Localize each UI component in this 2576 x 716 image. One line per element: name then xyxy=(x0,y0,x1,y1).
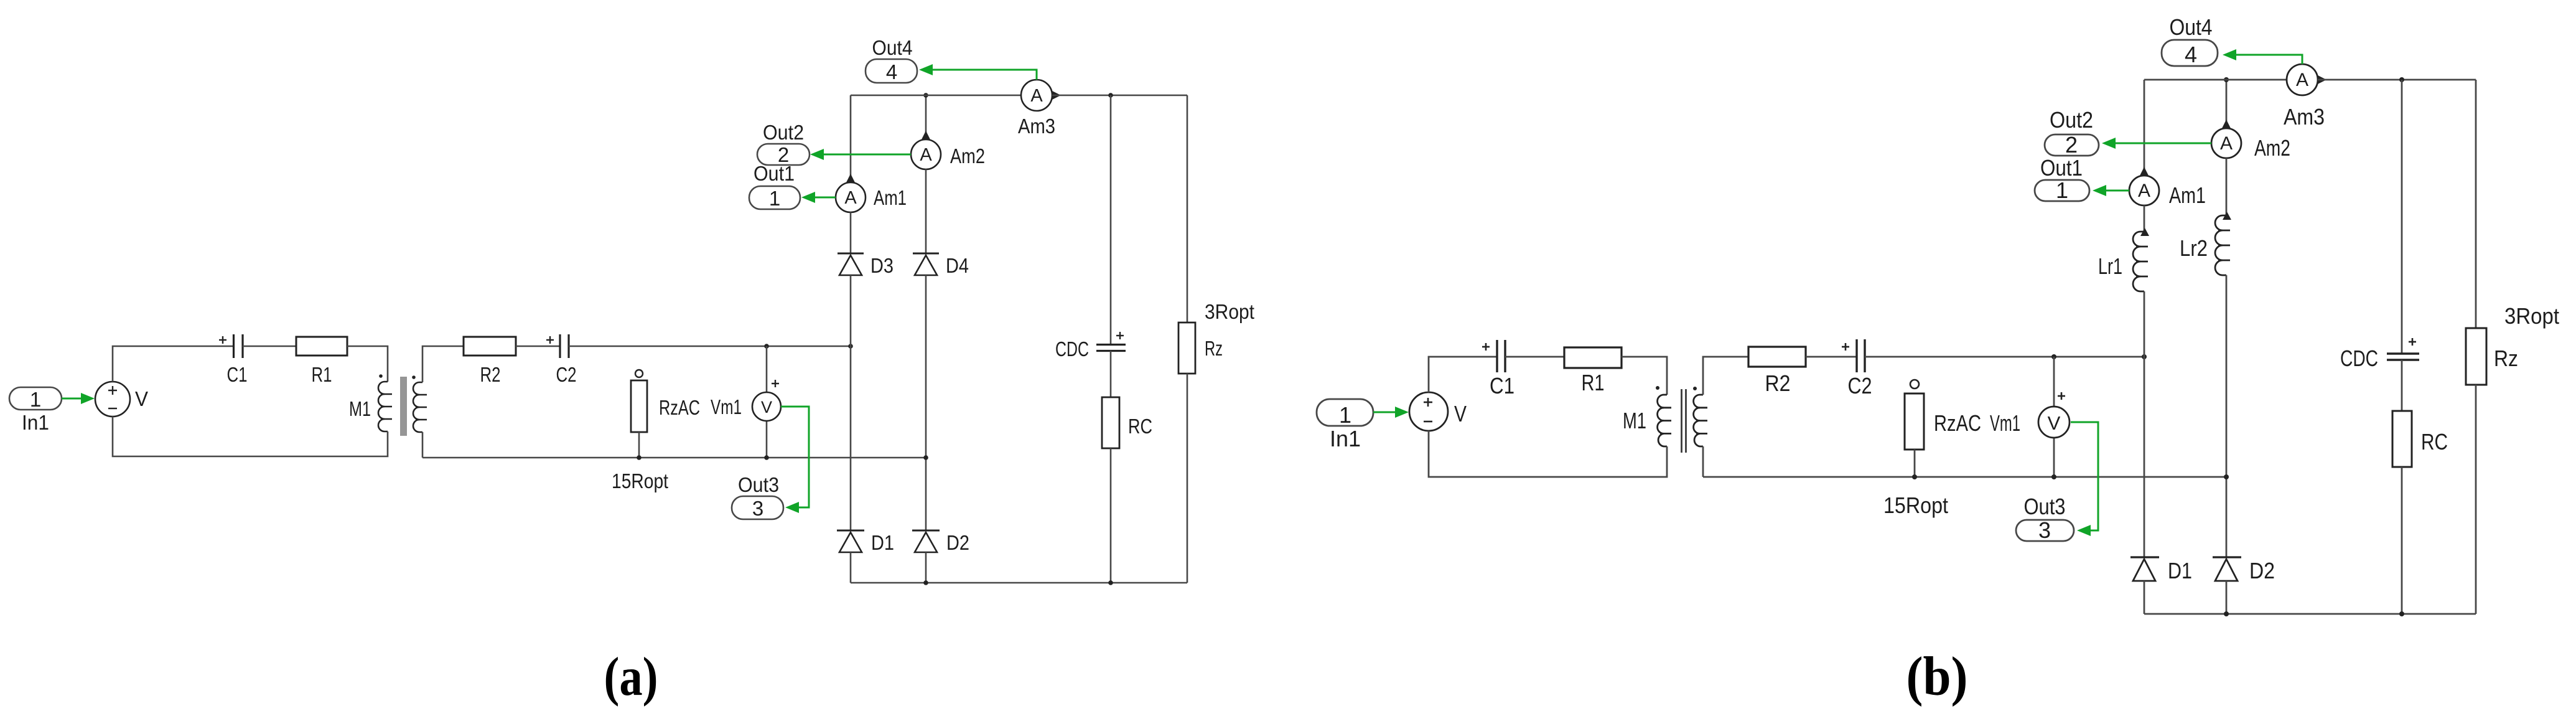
wire R2 to C2 (b) xyxy=(1806,356,1857,358)
svg-text:Am1: Am1 xyxy=(2169,182,2206,208)
wire Am1 to D3 (a) xyxy=(850,212,852,253)
node top rail CDC tap (a) xyxy=(1108,93,1113,98)
svg-text:Out4: Out4 xyxy=(2170,14,2213,40)
svg-text:V: V xyxy=(2048,412,2061,434)
svg-text:Am2: Am2 xyxy=(2254,135,2290,161)
voltmeter Vm1 (b) xyxy=(1990,357,2070,477)
port In1 (a) xyxy=(9,387,62,434)
transformer M1 primary winding (a) xyxy=(378,382,392,431)
diode D1 (b) xyxy=(2130,557,2192,583)
svg-text:D1: D1 xyxy=(2168,558,2192,583)
capacitor C1 (b) xyxy=(1482,340,1514,398)
resistor R1 (a) xyxy=(296,337,347,386)
wire V top to C1 (a) xyxy=(113,346,233,382)
svg-text:Lr1: Lr1 xyxy=(2098,253,2122,279)
wire bridge top rail right of Am3 (b) xyxy=(2318,79,2476,81)
wire bridge left leg upper (b) xyxy=(2144,80,2145,176)
wire C2 to bridge left leg (a) xyxy=(569,346,851,347)
wire D2 to bottom rail (a) xyxy=(925,552,927,583)
svg-text:A: A xyxy=(920,145,932,165)
wire D3 to secondary-top node and D1 (a) xyxy=(850,275,852,530)
inductor Lr2 top arrow (b) xyxy=(2223,212,2231,220)
diode D4 (a) xyxy=(913,253,969,277)
voltage source V (b) xyxy=(1409,392,1467,431)
svg-text:3Ropt: 3Ropt xyxy=(1205,300,1254,323)
svg-text:C1: C1 xyxy=(227,363,248,386)
svg-text:D1: D1 xyxy=(871,531,894,554)
wire Am2 to D4 (a) xyxy=(925,169,927,253)
svg-text:CDC: CDC xyxy=(2340,346,2378,371)
svg-text:1: 1 xyxy=(2056,177,2068,203)
port Out3 (a) xyxy=(732,473,783,520)
svg-text:Am3: Am3 xyxy=(1018,115,1055,138)
wire CDC branch upper (a) xyxy=(1110,95,1112,344)
node bottom rail right leg (a) xyxy=(923,580,928,585)
wire R1 to M1 primary (b) xyxy=(1622,357,1667,395)
wire R1 to M1 primary (a) xyxy=(347,346,388,382)
svg-text:In1: In1 xyxy=(22,411,49,434)
port Out2 (b) xyxy=(2045,107,2099,158)
wire bridge right leg upper (a) xyxy=(925,95,927,139)
svg-text:RC: RC xyxy=(2421,429,2448,455)
node Vm1 bottom (b) xyxy=(2051,474,2056,479)
svg-text:Am3: Am3 xyxy=(2284,104,2325,130)
capacitor C2 (b) xyxy=(1842,339,1872,398)
svg-text:A: A xyxy=(1030,86,1043,106)
signal wire Am3 to Out4 (a) xyxy=(919,64,1037,80)
svg-text:15Ropt: 15Ropt xyxy=(612,469,668,492)
svg-text:M1: M1 xyxy=(349,397,371,420)
wire Am1 to Lr1 (b) xyxy=(2144,205,2145,232)
node top rail CDC tap (b) xyxy=(2399,77,2404,82)
signal wire Am1 to Out1 (b) xyxy=(2093,185,2129,196)
node secondary top meets left leg (b) xyxy=(2142,354,2147,359)
svg-text:V: V xyxy=(135,387,148,410)
svg-text:In1: In1 xyxy=(1330,426,1361,451)
inductor Lr1 (b) xyxy=(2098,232,2148,291)
diode D2 (b) xyxy=(2213,557,2275,583)
ammeter Am2 direction arrow (a) xyxy=(922,131,930,139)
transformer M1 primary dot (b) xyxy=(1656,386,1659,390)
wire Rz to bottom rail (b) xyxy=(2475,385,2477,614)
wire Lr2 to secondary-bottom node and D2 (b) xyxy=(2226,275,2228,557)
ammeter Am1 direction arrow (b) xyxy=(2140,167,2149,176)
wire C1 to R1 (a) xyxy=(243,346,296,347)
diode D2 (a) xyxy=(912,530,969,554)
wire Rz to bottom rail (a) xyxy=(1187,374,1188,583)
signal wire Am2 to Out2 (a) xyxy=(810,149,911,160)
wire D2 to bottom rail (b) xyxy=(2226,581,2228,614)
svg-text:D2: D2 xyxy=(946,531,969,554)
svg-text:Out2: Out2 xyxy=(2050,107,2093,133)
resistor R2 (a) xyxy=(464,337,516,386)
svg-text:15Ropt: 15Ropt xyxy=(1883,492,1948,518)
ammeter Am1 (b) xyxy=(2129,176,2206,208)
ammeter Am2 direction arrow (b) xyxy=(2222,120,2231,128)
svg-text:Out2: Out2 xyxy=(763,121,804,144)
wire bridge top rail left of Am3 (b) xyxy=(2144,79,2287,81)
ammeter Am1 (a) xyxy=(836,182,907,212)
resistor RC (b) xyxy=(2392,411,2448,467)
svg-text:1: 1 xyxy=(1339,402,1351,428)
port Out4 (a) xyxy=(866,36,917,83)
transformer M1 secondary winding (b) xyxy=(1694,395,1707,446)
svg-text:A: A xyxy=(2138,181,2150,201)
wire Am2 to Lr2 (b) xyxy=(2226,158,2228,215)
wire R2 to C2 (a) xyxy=(516,346,560,347)
signal wire In1 to V (b) xyxy=(1373,407,1409,418)
svg-text:Out3: Out3 xyxy=(2024,494,2066,519)
node bottom rail RC tap (b) xyxy=(2399,611,2404,616)
node secondary top meets left leg (a) xyxy=(848,344,853,349)
wire CDC to RC (b) xyxy=(2401,360,2403,411)
ammeter Am3 (a) xyxy=(1018,80,1055,138)
svg-text:Lr2: Lr2 xyxy=(2180,235,2208,261)
svg-text:R2: R2 xyxy=(1765,370,1791,396)
node Vm1 bottom (a) xyxy=(764,455,769,460)
wire D4 to secondary-bottom node and D2 (a) xyxy=(925,275,927,530)
wire RC to bottom rail (a) xyxy=(1110,448,1112,583)
transformer M1 primary winding (b) xyxy=(1658,395,1671,446)
svg-text:A: A xyxy=(2220,133,2233,154)
svg-text:RzAC: RzAC xyxy=(1934,410,1981,436)
wire Lr1 to secondary-top node and D1 (b) xyxy=(2144,291,2145,557)
svg-text:D4: D4 xyxy=(946,254,969,277)
svg-text:A: A xyxy=(2296,70,2308,90)
wire C2 to bridge left leg (b) xyxy=(1865,356,2144,358)
resistor Rz (a) xyxy=(1178,300,1254,374)
voltage source V (a) xyxy=(95,382,148,417)
inductor Lr2 (b) xyxy=(2180,215,2230,275)
svg-text:V: V xyxy=(1454,401,1467,426)
wire M1 secondary top to R2 (a) xyxy=(422,346,464,382)
capacitor C2 (a) xyxy=(546,334,577,386)
svg-text:Am1: Am1 xyxy=(874,186,907,209)
svg-text:C2: C2 xyxy=(556,363,577,386)
ammeter Am3 direction arrow (a) xyxy=(1052,91,1061,100)
wire M1 secondary bottom stub (a) xyxy=(422,432,424,458)
diode D1 (a) xyxy=(837,530,894,554)
svg-text:C1: C1 xyxy=(1490,373,1514,398)
wire bridge bottom rail (b) xyxy=(2144,613,2476,615)
svg-text:R1: R1 xyxy=(312,363,332,386)
svg-text:M1: M1 xyxy=(1623,408,1646,433)
node secondary top / Vm1 tap (a) xyxy=(764,344,769,349)
wire secondary bottom (a) xyxy=(422,457,926,459)
svg-text:RC: RC xyxy=(1128,415,1152,438)
ammeter Am2 (a) xyxy=(911,139,985,169)
svg-text:R2: R2 xyxy=(480,363,501,386)
wire bridge bottom rail (a) xyxy=(851,582,1187,584)
port Out4 (b) xyxy=(2162,14,2218,67)
wire CDC to RC (a) xyxy=(1110,351,1112,398)
transformer M1 secondary winding (a) xyxy=(413,382,427,432)
wire Rz branch upper (a) xyxy=(1187,95,1188,323)
port In1 (b) xyxy=(1317,399,1373,451)
ammeter Am2 (b) xyxy=(2211,128,2290,161)
node right leg top (a) xyxy=(923,93,928,98)
port Out2 (a) xyxy=(757,121,810,166)
wire CDC branch upper (b) xyxy=(2401,80,2403,353)
resistor RzAC (b) xyxy=(1883,380,1981,518)
svg-text:3Ropt: 3Ropt xyxy=(2504,303,2559,329)
wire bridge right leg upper (b) xyxy=(2226,80,2228,128)
svg-text:1: 1 xyxy=(769,187,780,210)
node bottom rail RC tap (a) xyxy=(1108,580,1113,585)
svg-text:(b): (b) xyxy=(1906,646,1968,707)
port Out1 (b) xyxy=(2035,155,2089,203)
svg-text:3: 3 xyxy=(752,497,763,520)
transformer M1 primary dot (a) xyxy=(379,374,383,378)
wire RC to bottom rail (b) xyxy=(2401,467,2403,614)
port Out1 (a) xyxy=(749,162,800,210)
wire D1 to bottom rail (a) xyxy=(850,552,852,583)
node secondary top Vm1 tap (b) xyxy=(2051,354,2056,359)
port Out3 (b) xyxy=(2016,494,2074,543)
wire M1 secondary top to R2 (b) xyxy=(1703,357,1748,395)
wire C1 to R1 (b) xyxy=(1505,356,1564,358)
transformer M1 core (a) xyxy=(400,377,407,436)
node secondary bottom meets right leg (b) xyxy=(2224,474,2229,479)
signal wire Vm1 to Out3 (b) xyxy=(2071,422,2098,536)
capacitor CDC (b) xyxy=(2340,338,2419,371)
transformer M1 secondary dot (a) xyxy=(412,375,416,379)
inductor Lr1 top arrow (b) xyxy=(2140,228,2149,236)
resistor Rz (b) xyxy=(2466,303,2559,385)
node RzAC bottom (b) xyxy=(1912,474,1917,479)
svg-text:Vm1: Vm1 xyxy=(711,395,742,418)
svg-text:2: 2 xyxy=(778,143,789,166)
ammeter Am1 direction arrow (a) xyxy=(846,174,855,182)
node bottom rail right leg (b) xyxy=(2224,611,2229,616)
svg-text:2: 2 xyxy=(2065,132,2078,158)
svg-text:3: 3 xyxy=(2038,517,2051,543)
capacitor CDC (a) xyxy=(1055,332,1126,360)
svg-text:Am2: Am2 xyxy=(950,144,985,167)
svg-text:V: V xyxy=(761,398,772,417)
svg-text:A: A xyxy=(844,188,857,208)
svg-text:(a): (a) xyxy=(604,647,658,707)
wire M1 primary bottom (b) xyxy=(1429,431,1667,477)
wire bridge top rail right of Am3 (a) xyxy=(1052,95,1187,97)
wire bridge left leg upper (a) xyxy=(850,95,852,182)
transformer M1 core (b) xyxy=(1682,389,1686,453)
diode D3 (a) xyxy=(838,253,894,277)
svg-text:Rz: Rz xyxy=(1205,337,1223,360)
signal wire Am2 to Out2 (b) xyxy=(2102,138,2211,149)
resistor R1 (b) xyxy=(1564,347,1622,395)
ammeter Am3 (b) xyxy=(2284,64,2325,130)
node right leg top (b) xyxy=(2224,77,2229,82)
ammeter Am3 direction arrow (b) xyxy=(2318,75,2326,84)
resistor RC (a) xyxy=(1102,397,1152,448)
signal wire Vm1 to Out3 (a) xyxy=(781,407,809,513)
wire D1 to bottom rail (b) xyxy=(2144,581,2145,614)
svg-text:R1: R1 xyxy=(1582,370,1605,395)
svg-text:RzAC: RzAC xyxy=(659,396,700,419)
signal wire In1 to V (a) xyxy=(62,393,95,404)
resistor RzAC (a) xyxy=(612,370,700,492)
wire bridge top rail left of Am3 (a) xyxy=(851,95,1021,97)
svg-text:CDC: CDC xyxy=(1055,337,1089,360)
resistor R2 (b) xyxy=(1748,347,1806,396)
svg-text:Rz: Rz xyxy=(2494,346,2518,371)
svg-text:Out1: Out1 xyxy=(2040,155,2083,181)
svg-text:D2: D2 xyxy=(2249,558,2275,583)
node RzAC bottom (a) xyxy=(637,455,642,460)
node secondary bottom meets right leg (a) xyxy=(923,455,928,460)
svg-text:1: 1 xyxy=(30,388,41,411)
svg-text:Out4: Out4 xyxy=(872,36,913,59)
svg-text:Vm1: Vm1 xyxy=(1990,410,2020,436)
wire Rz branch upper (b) xyxy=(2475,80,2477,328)
svg-text:D3: D3 xyxy=(870,254,894,277)
voltmeter Vm1 (a) xyxy=(711,346,781,458)
wire secondary bottom (b) xyxy=(1703,476,2226,478)
wire M1 primary bottom (a) xyxy=(113,417,388,456)
svg-text:C2: C2 xyxy=(1848,373,1872,398)
svg-text:Out3: Out3 xyxy=(738,473,779,496)
svg-text:4: 4 xyxy=(886,60,897,83)
svg-text:4: 4 xyxy=(2185,42,2197,67)
wire V top to C1 (b) xyxy=(1429,357,1496,392)
wire M1 secondary bottom stub (b) xyxy=(1702,446,1704,477)
capacitor C1 (a) xyxy=(219,334,248,386)
signal wire Am1 to Out1 (a) xyxy=(801,192,836,203)
transformer M1 secondary dot (b) xyxy=(1693,387,1697,390)
signal wire Am3 to Out4 (b) xyxy=(2223,49,2302,64)
